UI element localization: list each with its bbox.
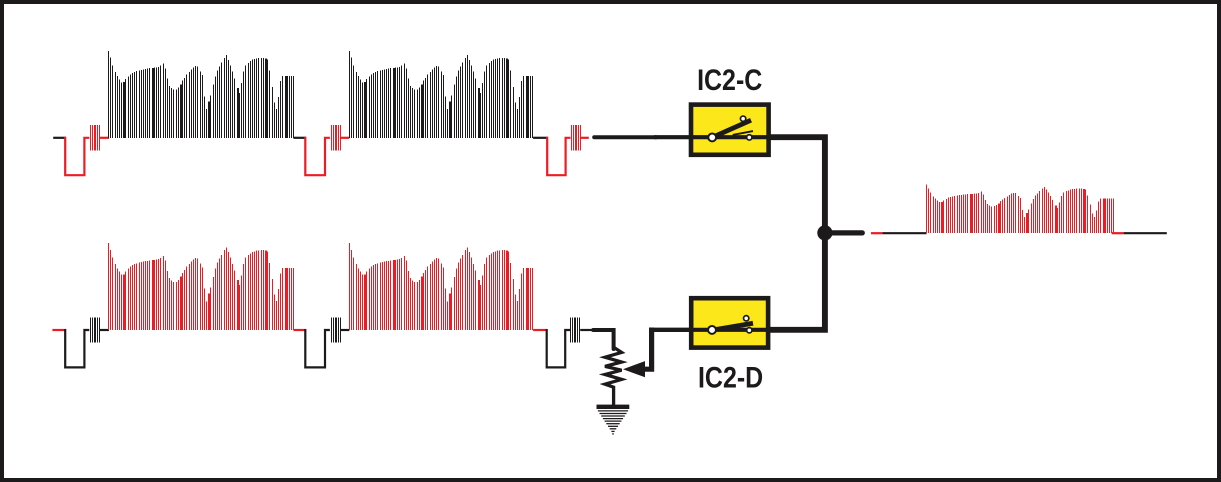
IC2-D pole terminal [707,325,717,335]
bottom trace sync pulse 2 (black) [305,329,330,367]
output trace baseline (black) [882,232,926,234]
wire: bottom waveform to potentiometer top [593,330,613,349]
bottom trace baseline 3 (red) [533,329,547,331]
bottom trace sync pulse 1 (black) [65,329,89,367]
IC2-D switch arm [715,323,754,330]
bottom trace color burst 1 (black) [91,317,100,342]
bottom trace baseline between lines (red) [294,329,307,331]
output trace start (red segment) [871,232,882,234]
bottom trace burst-to-video link 2 (black) [340,329,349,331]
bottom trace color burst 2 (black) [332,317,341,342]
wire: IC2-C output to right corner [768,137,825,233]
bottom trace burst-to-video link 1 (black) [100,329,109,331]
IC2-C fixed-contact tick [733,131,753,135]
bottom trace tail (black) [580,329,591,331]
bottom trace video segment 1 (red bars) [109,243,294,330]
IC2-C internal wire [691,135,768,139]
analog switch IC2-C (box) [691,105,769,155]
output trace end red segment [1112,232,1124,234]
top trace tail (red) [581,137,589,139]
top trace sync pulse 1 (red) [65,137,89,175]
IC2-D output terminal [746,327,753,334]
top trace sync pulse 2 (red) [305,137,330,175]
top trace sync pulse 3 (red) [547,137,570,175]
top trace baseline between lines (black) [294,137,307,139]
node B: bottom input waveform start (red baseline) [52,329,66,331]
IC2-C output terminal [746,134,753,141]
IC2-D arm-end terminal [743,315,750,322]
top trace baseline 3 (black) [533,137,548,139]
svg-text:IC2-C: IC2-C [697,64,762,97]
wiper arrowhead [623,361,645,377]
wire: wiper leg down and left [643,328,652,370]
potentiometer R (zigzag body) [605,347,622,405]
bottom trace color burst 3 (black) [571,317,580,342]
wire: top waveform to IC2-C input [594,135,656,139]
IC2-C arm-end terminal [740,115,747,122]
top trace color burst 3 (red) [572,125,581,150]
bottom trace video segment 2 (red bars) [350,243,533,330]
wire: IC2-D input to wiper leg [649,328,770,332]
IC2-D internal wire [691,328,768,332]
bottom trace sync pulse 3 (black) [547,329,570,367]
svg-text:IC2-D: IC2-D [698,361,763,394]
output video segment (red bars) [927,185,1114,234]
ground symbol [597,405,630,409]
top trace burst-to-video link 1 (red) [100,137,109,139]
wire: IC2-C input thickening segment [654,135,770,139]
top trace color burst 2 (red) [332,125,341,150]
top trace video segment 2 (black bars) [350,51,533,138]
IC2-C pole terminal [707,132,717,142]
IC2-C switch arm [716,120,752,136]
node A: top input waveform start (black baseline) [53,137,66,139]
wire: output stub from junction [822,230,862,235]
junction node (solder dot) [817,225,832,240]
analog switch IC2-D (box) [691,298,768,347]
wire: junction down to IC2-D output [768,230,825,330]
top trace color burst 1 (red) [91,125,100,150]
output trace end baseline (black) [1124,232,1167,234]
top trace burst-to-video link 2 (red) [340,137,349,139]
top trace video segment 1 (black bars) [109,51,294,138]
